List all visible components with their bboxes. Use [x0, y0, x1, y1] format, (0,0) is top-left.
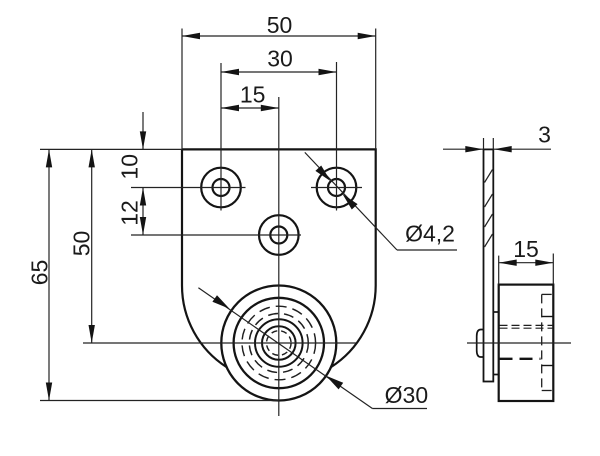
svg-text:30: 30	[267, 46, 293, 72]
svg-text:65: 65	[27, 260, 53, 286]
svg-text:50: 50	[69, 231, 95, 257]
svg-text:Ø4,2: Ø4,2	[405, 221, 455, 247]
svg-text:3: 3	[538, 122, 551, 148]
svg-text:15: 15	[240, 82, 266, 108]
svg-text:Ø30: Ø30	[385, 382, 428, 408]
svg-text:50: 50	[267, 12, 293, 38]
svg-text:12: 12	[117, 200, 143, 226]
svg-text:10: 10	[117, 154, 143, 180]
svg-text:15: 15	[513, 236, 539, 262]
